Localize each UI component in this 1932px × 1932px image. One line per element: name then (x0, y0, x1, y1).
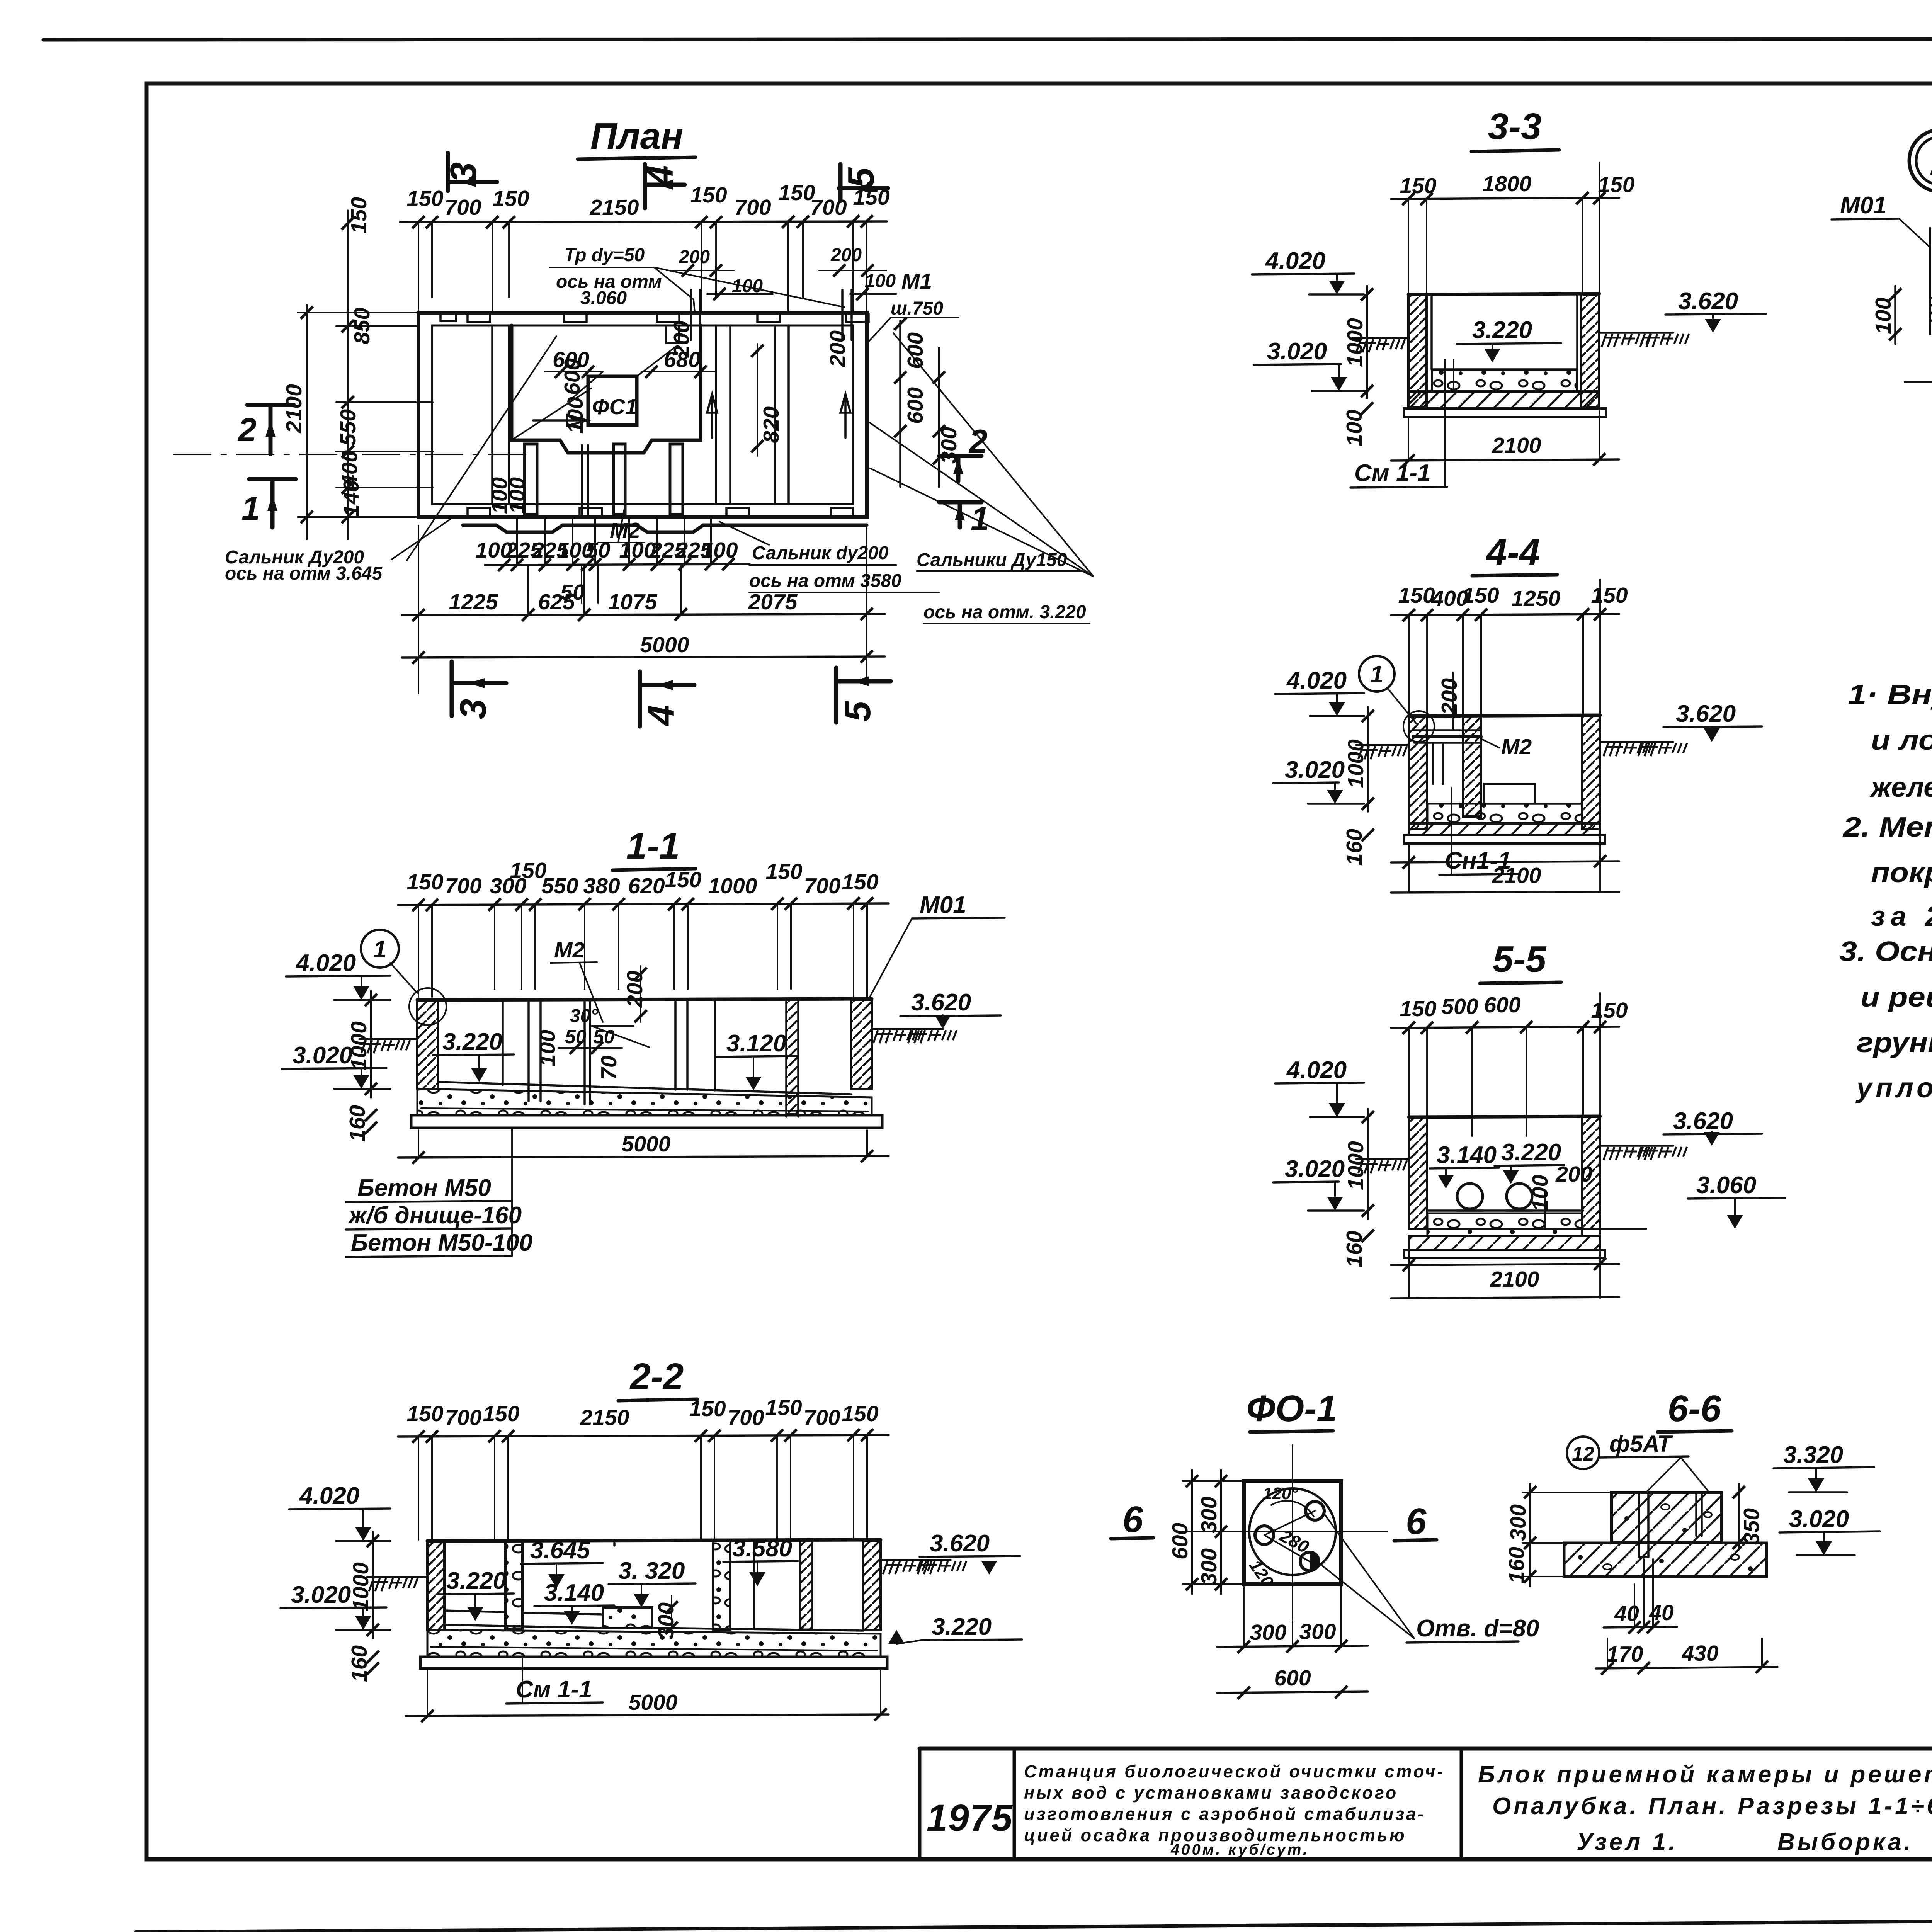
svg-text:1: 1 (241, 490, 260, 527)
section flag 1 left (241, 479, 296, 527)
svg-text:1250: 1250 (1512, 586, 1561, 611)
section flag 5 top (839, 164, 888, 201)
svg-text:грунт, уложенный слоями с: грунт, уложенный слоями с тщательным (1857, 1027, 1932, 1058)
section 1-1 interior formwork verticals (503, 1000, 798, 1117)
svg-text:380: 380 (583, 874, 620, 898)
svg-text:2. Металлические изделия и: 2. Металлические изделия и закладные дет… (1842, 812, 1932, 843)
centre chamber dimension 600 (545, 347, 603, 378)
section 1-1 left wall hatched (417, 1000, 438, 1089)
section 6-6 bottom dimension 170 430 (1596, 1638, 1777, 1675)
section flag 3 top (443, 153, 497, 191)
ФО-1 hole bottom (1300, 1552, 1319, 1571)
pipe 1 offset dimension 100 (707, 276, 773, 300)
section 2-2 top dimension line (398, 1395, 889, 1540)
diagonal leader into left chamber (407, 336, 556, 560)
section 2-2 inner wall 3 hatched (800, 1541, 812, 1629)
elevation mark 3.120 section 1-1 (717, 1030, 798, 1090)
svg-text:ФО-1: ФО-1 (1247, 1388, 1337, 1429)
section 2-2 interior floor line (444, 1611, 863, 1631)
section 6-6 bottom dimension 40 40 (1604, 1559, 1677, 1634)
svg-text:и лотка заштукатурить с п: и лотка заштукатурить с последующим (1871, 725, 1932, 756)
svg-text:140: 140 (339, 480, 364, 517)
section flag 4 bottom (640, 672, 694, 726)
vertical dimension 1000 section 5-5 (1344, 1109, 1374, 1219)
svg-text:700: 700 (445, 1405, 481, 1430)
svg-text:3.620: 3.620 (930, 1530, 990, 1557)
section 4-4 М2 bracket plate (1413, 730, 1481, 784)
svg-text:6-6: 6-6 (1668, 1388, 1721, 1429)
section 5-5 bottom dimension 2100 (1391, 993, 1619, 1298)
svg-text:50: 50 (586, 538, 611, 563)
svg-text:2100: 2100 (282, 384, 306, 434)
svg-text:ось на отм 3580: ось на отм 3580 (749, 571, 901, 591)
section 5-5 right wall hatched (1582, 1117, 1600, 1229)
svg-text:4.020: 4.020 (299, 1483, 359, 1509)
section flag 1 right (939, 500, 989, 537)
section 2-2 bottom dimension 5000 (406, 1670, 889, 1722)
svg-text:150: 150 (483, 1401, 519, 1426)
svg-text:3.220: 3.220 (446, 1568, 506, 1594)
elevation mark 4.020 section 2-2 (289, 1483, 390, 1541)
section 1-1 ground level right (872, 1029, 957, 1043)
section 1-1 ground level left (359, 1039, 417, 1053)
elevation mark 3.140 section 2-2 (534, 1580, 614, 1625)
svg-text:300: 300 (1299, 1619, 1336, 1644)
section 3-3 concrete fill with aggregate (1432, 370, 1577, 391)
plan axis dash line (174, 454, 526, 455)
node detail 1 circle (1909, 130, 1932, 192)
svg-text:625: 625 (538, 590, 575, 614)
ФО-1 centre lines (1202, 1445, 1387, 1619)
elevation mark 4.020 (1252, 248, 1364, 294)
svg-text:100: 100 (563, 397, 588, 434)
section 2-2 inner wall 2 concrete (713, 1541, 730, 1629)
ФО-1 bottom dimension 300 300 (1217, 1586, 1368, 1653)
elevation mark 3.580 section 2-2 (723, 1535, 798, 1586)
section 5-5 ground level right (1600, 1146, 1687, 1160)
label Salnik Du200 bottom left (225, 519, 450, 584)
rotated dimension 300 section 2-2 (654, 1596, 679, 1639)
section flag 5 bottom (836, 668, 891, 723)
svg-text:700: 700 (804, 874, 840, 898)
plan inner wall edge rectangle (432, 325, 853, 504)
plan inlet notch on top wall (666, 325, 679, 343)
svg-text:550: 550 (336, 409, 361, 446)
svg-text:150: 150 (406, 1401, 443, 1426)
section 4-4 ground level right (1600, 742, 1687, 756)
svg-text:См 1-1: См 1-1 (1354, 460, 1430, 486)
svg-text:160: 160 (1342, 829, 1367, 866)
elevation mark 3.020 section 2-2 (281, 1582, 390, 1630)
svg-text:100: 100 (505, 477, 530, 514)
section 6-6 right vertical dimension 350 (1733, 1484, 1764, 1549)
ФО-1 angle label 120 (1245, 1484, 1314, 1591)
svg-text:3.020: 3.020 (1285, 757, 1345, 783)
svg-text:2100: 2100 (1492, 433, 1541, 458)
svg-text:5: 5 (840, 167, 882, 188)
svg-text:План: План (590, 116, 683, 157)
svg-text:1000: 1000 (1344, 739, 1368, 788)
plan flow arrow centre (533, 415, 587, 426)
elevation mark 3.020 section 5-5 (1273, 1156, 1364, 1211)
svg-text:2150: 2150 (590, 195, 639, 220)
section 2-2 inner thin verticals (614, 1541, 754, 1628)
svg-text:150: 150 (492, 186, 529, 211)
plan top dimension extension lines (418, 221, 867, 313)
svg-text:12: 12 (1572, 1443, 1594, 1465)
svg-text:Сн1-1: Сн1-1 (1445, 847, 1511, 874)
svg-text:и решеток-дробилок служит м: и решеток-дробилок служит местный песчан… (1861, 982, 1932, 1013)
detail circle 1 (1359, 656, 1434, 742)
svg-text:150: 150 (1591, 583, 1628, 608)
section 4-4 floor step block (1481, 784, 1582, 804)
label M01 section 1-1 (869, 892, 1005, 999)
svg-text:150: 150 (842, 870, 878, 895)
elevation mark 3.220 section 1-1 (433, 1029, 514, 1082)
svg-text:3.220: 3.220 (1501, 1139, 1561, 1166)
ФО-1 radius line 280 (1264, 1511, 1315, 1561)
elevation mark 3.020 section 6-6 (1779, 1506, 1880, 1555)
vertical dimension 160 section 5-5 (1342, 1230, 1374, 1267)
svg-text:Сальник dу200: Сальник dу200 (752, 543, 889, 563)
svg-text:150: 150 (1462, 583, 1499, 608)
label M1 sh.750 with leader (866, 269, 959, 345)
ФО-1 hole left (1255, 1526, 1274, 1544)
svg-text:300: 300 (1506, 1504, 1531, 1541)
svg-text:700: 700 (727, 1405, 764, 1430)
plan bottom dimension row 1225 625 1075 2075 (402, 566, 885, 621)
section 4-4 bottom dimension 2100 (1391, 580, 1619, 893)
svg-text:Опалубка. План. Разрезы 1-1÷6: Опалубка. План. Разрезы 1-1÷6-6. ф01 (1492, 1793, 1932, 1820)
plan right rotated dimensions (894, 318, 961, 487)
section 4-4 inner wall hatched (1463, 716, 1481, 816)
dimension 200 section 5-5 (1528, 1162, 1592, 1229)
svg-text:300: 300 (1250, 1620, 1286, 1645)
elevation mark 3.620 right (1665, 288, 1766, 333)
section 3-3 left wall hatched (1408, 294, 1427, 408)
svg-text:М2: М2 (610, 518, 640, 543)
svg-text:Выборка.: Выборка. (1777, 1829, 1913, 1855)
svg-text:4: 4 (641, 705, 682, 726)
svg-text:1· Внутренние поверхности м: 1· Внутренние поверхности мокрых камер (1848, 679, 1932, 710)
rebar mark circle 12 (1567, 1437, 1599, 1469)
svg-text:1000: 1000 (349, 1562, 373, 1611)
vertical dimension 160 section 2-2 (347, 1645, 379, 1682)
svg-text:700: 700 (803, 1405, 840, 1430)
plan centre chamber outline with notched bottom (512, 325, 701, 453)
svg-text:ФС1: ФС1 (592, 395, 637, 419)
svg-text:5: 5 (837, 701, 878, 722)
section 5-5 title (1480, 939, 1561, 983)
section 4-4 top edge line (1409, 715, 1600, 716)
ФО-1 bottom dimension 600 (1217, 1666, 1368, 1699)
section 4-4 title (1472, 532, 1557, 576)
small dims 100 50 50 70 section 1-1 (535, 1026, 622, 1080)
svg-text:150: 150 (1591, 998, 1628, 1023)
svg-text:40: 40 (1614, 1601, 1639, 1626)
svg-text:1: 1 (373, 936, 386, 963)
plan interior wall between left chamber and centre (492, 325, 509, 504)
svg-text:430: 430 (1681, 1641, 1718, 1666)
svg-text:350: 350 (1739, 1508, 1764, 1545)
svg-text:150: 150 (1400, 173, 1436, 198)
rotated dimension 200 section 1-1 (622, 966, 647, 1022)
vertical dimension 160 section 1-1 (345, 1105, 377, 1142)
svg-text:30°: 30° (570, 1006, 598, 1026)
label Salniki Du150 bottom right (867, 333, 1094, 624)
svg-text:1-1: 1-1 (626, 825, 680, 867)
rotated dimensions 100 100 at slots (487, 477, 530, 514)
formwork part ФО-1 title (1247, 1388, 1337, 1432)
ФО-1 large circle (1249, 1488, 1336, 1575)
svg-text:100: 100 (535, 1030, 560, 1066)
svg-text:3-3: 3-3 (1488, 106, 1542, 147)
section 4-4 top dimension line (1391, 580, 1628, 715)
section 2-2 projecting base slab (420, 1657, 887, 1668)
section 1-1 top edge line (417, 999, 872, 1000)
diagonal leader centre chamber (514, 388, 591, 439)
vertical dimension 1000 section 1-1 (347, 991, 377, 1097)
svg-text:600: 600 (1168, 1523, 1192, 1560)
section 2-2 top edge line (427, 1540, 881, 1541)
svg-text:200: 200 (669, 321, 694, 358)
svg-text:150: 150 (406, 870, 443, 895)
ФО-1 left vertical dimensions 300 300 (1197, 1470, 1227, 1594)
svg-text:100: 100 (1528, 1175, 1553, 1211)
svg-text:3.220: 3.220 (1472, 317, 1532, 344)
svg-text:620: 620 (628, 874, 665, 898)
svg-text:100: 100 (1342, 410, 1367, 446)
diagonal leader to ФС1 corner (568, 348, 674, 402)
elevation mark 3.220 inside (1457, 317, 1561, 362)
node detail base line (1905, 382, 1932, 392)
section flag 4 top (639, 164, 685, 208)
svg-text:железнением, общим слоем - 25: железнением, общим слоем - 25мн. (1869, 772, 1932, 803)
svg-text:50: 50 (565, 1026, 587, 1048)
label Sm1-1 section 4-4 (1439, 788, 1519, 875)
plan view title (578, 116, 696, 159)
elevation mark 3.020 section 1-1 (282, 1042, 390, 1089)
svg-text:200: 200 (1555, 1162, 1592, 1187)
section 4-4 base slab hatched (1409, 823, 1600, 835)
plan interior wall between right chambers (775, 325, 789, 504)
rotated dimension 820 (751, 344, 784, 456)
elevation mark 4.020 section 5-5 (1275, 1057, 1364, 1117)
section 2-2 ground level left (367, 1577, 427, 1591)
section 2-2 right wall hatched (863, 1541, 881, 1630)
ФО-1 hole top right (1306, 1502, 1324, 1520)
page bottom edge line (136, 1917, 1932, 1932)
vertical dimension 1000 section 4-4 (1344, 707, 1374, 811)
svg-text:2-2: 2-2 (629, 1356, 684, 1397)
plan box ФС1 (588, 376, 637, 425)
svg-text:200: 200 (679, 247, 710, 267)
section 6-6 base slab hatched (1564, 1543, 1767, 1577)
section 5-5 base slab (1409, 1236, 1600, 1250)
svg-text:3.580: 3.580 (732, 1535, 792, 1562)
section 4-4 left wall hatched (1409, 716, 1427, 829)
label M2 section 1-1 (551, 938, 603, 1022)
section 3-3 top dimension line (1391, 162, 1635, 294)
svg-text:3.020: 3.020 (293, 1042, 352, 1069)
svg-text:4.020: 4.020 (1265, 248, 1325, 274)
plan left inner dimension chain (298, 197, 433, 539)
elevation mark 3.220 section 2-2 left (437, 1568, 514, 1621)
svg-text:2: 2 (237, 412, 257, 449)
section 3-3 top edge line (1408, 294, 1599, 294)
plan anchor plates on top wall (440, 313, 869, 322)
elevation mark 3.220 section 5-5 (1495, 1139, 1564, 1184)
plan anchor plates on bottom wall (468, 508, 853, 516)
svg-text:1000: 1000 (1343, 318, 1367, 367)
elevation mark 3.020 (1254, 338, 1368, 391)
elevation mark 3.320 section 6-6 (1774, 1442, 1874, 1492)
svg-text:2075: 2075 (748, 590, 798, 614)
svg-text:3.020: 3.020 (1285, 1156, 1345, 1182)
svg-text:3.620: 3.620 (1676, 701, 1736, 727)
svg-text:300: 300 (1197, 1548, 1221, 1585)
svg-text:Узел 1.: Узел 1. (1577, 1829, 1678, 1855)
plan lower curb outline with two dips (463, 525, 867, 532)
elevation mark 4.020 section 1-1 (286, 950, 390, 1000)
section 5-5 projecting base slab (1404, 1250, 1605, 1258)
svg-text:3: 3 (443, 162, 484, 183)
svg-text:150: 150 (347, 197, 371, 234)
svg-text:150: 150 (842, 1401, 878, 1426)
label pipe Tp dy=50 with leader (550, 245, 844, 313)
svg-text:4-4: 4-4 (1486, 532, 1540, 573)
svg-text:покрыть антикоррозийным биту: покрыть антикоррозийным битумным лаком (1871, 857, 1932, 888)
plan bottom dimension row small (475, 518, 750, 605)
svg-text:3.060: 3.060 (580, 288, 627, 308)
section 5-5 concrete fill (1427, 1213, 1582, 1236)
plan formwork slot panel 3 (670, 444, 683, 514)
svg-text:150: 150 (765, 859, 802, 884)
svg-text:200: 200 (830, 245, 862, 265)
title block project description (1024, 1762, 1445, 1858)
section 5-5 left wall hatched (1409, 1117, 1427, 1229)
svg-text:150: 150 (406, 186, 443, 211)
svg-text:5-5: 5-5 (1493, 939, 1547, 980)
node detail label M01 (1832, 192, 1930, 247)
svg-text:3. 320: 3. 320 (618, 1558, 685, 1584)
ФО-1 extension lines left (1182, 1481, 1244, 1584)
section 1-1 top dimension line (398, 858, 889, 997)
svg-text:ф5АТ: ф5АТ (1609, 1431, 1673, 1457)
svg-text:4.020: 4.020 (295, 950, 356, 976)
vertical dimension 1000 (1343, 286, 1373, 398)
svg-text:3.140: 3.140 (1437, 1142, 1497, 1168)
svg-text:600: 600 (1274, 1666, 1311, 1690)
svg-text:150: 150 (665, 867, 701, 892)
pipe 2 width dimension 200 (819, 245, 886, 277)
svg-text:3.220: 3.220 (442, 1029, 502, 1055)
svg-text:3.120: 3.120 (726, 1030, 786, 1057)
section 5-5 top dimension line (1391, 993, 1628, 1136)
section 3-3 base slab hatched (1408, 391, 1599, 408)
label Sm 1-1 (1350, 359, 1454, 488)
svg-text:3.645: 3.645 (530, 1537, 591, 1564)
ФО-1 square plate (1244, 1481, 1341, 1584)
svg-text:См 1-1: См 1-1 (516, 1676, 592, 1703)
svg-text:ж/б днище-160: ж/б днище-160 (348, 1202, 522, 1229)
svg-text:150: 150 (1400, 997, 1436, 1021)
svg-text:М01: М01 (920, 892, 966, 918)
label M2 with leader (598, 510, 645, 543)
svg-text:170: 170 (1606, 1642, 1643, 1667)
pipe 2 offset dimension 100 (850, 271, 896, 300)
plan left outer dimension line 2100 (282, 305, 313, 539)
title block top border (920, 1747, 1932, 1751)
svg-text:3.620: 3.620 (1673, 1108, 1733, 1134)
label Salnik dy200 bottom centre (719, 522, 939, 592)
svg-text:ных вод с установками заводско: ных вод с установками заводского (1024, 1783, 1398, 1803)
section 3-3 ground level right (1599, 333, 1689, 347)
section 6-6 title (1658, 1388, 1732, 1432)
elevation mark 3.645 section 2-2 (521, 1537, 603, 1588)
svg-text:300: 300 (937, 427, 961, 464)
svg-text:Бетон М50: Бетон М50 (357, 1175, 491, 1201)
svg-text:700: 700 (445, 874, 481, 898)
svg-text:5000: 5000 (640, 633, 689, 657)
ФО-1 left vertical dimension 600 (1168, 1470, 1198, 1594)
section 5-5 top edge line (1409, 1116, 1600, 1117)
page top edge line (43, 39, 1932, 40)
svg-text:600: 600 (1484, 993, 1520, 1017)
label M2 section 4-4 (1481, 735, 1532, 759)
elevation mark 3.620 section 1-1 (900, 989, 1001, 1029)
section 4-4 projecting base slab (1404, 835, 1605, 844)
svg-text:160: 160 (1504, 1547, 1529, 1583)
svg-text:ш.750: ш.750 (891, 298, 943, 319)
section 1-1 projecting base slab (411, 1115, 882, 1128)
svg-text:700: 700 (734, 195, 771, 220)
svg-text:4.020: 4.020 (1286, 1057, 1347, 1083)
svg-text:3.320: 3.320 (1783, 1442, 1843, 1468)
elevation mark 4.020 section 4-4 (1275, 667, 1364, 716)
section 3-3 inner channel walls (1432, 295, 1577, 369)
section 2-2 ground level right (881, 1560, 966, 1574)
svg-text:6: 6 (1406, 1501, 1427, 1542)
svg-text:3. Основанием под блок при: 3. Основанием под блок приемной камеры (1839, 936, 1932, 967)
section 1-1 bottom dimension 5000 (398, 1130, 889, 1164)
elevation mark 3.220 section 2-2 right (888, 1614, 1022, 1644)
plan top dimension texts (406, 180, 889, 220)
section 4-4 right wall hatched (1582, 716, 1600, 829)
svg-text:600: 600 (903, 332, 928, 369)
elevation mark 3.020 section 4-4 (1273, 757, 1364, 804)
svg-text:3.620: 3.620 (911, 989, 971, 1016)
section 6-6 pedestal hatched (1611, 1492, 1722, 1543)
svg-text:100: 100 (865, 271, 896, 291)
section 3-3 projecting base slab (1404, 408, 1606, 417)
svg-text:М2: М2 (554, 938, 585, 963)
section 6-6 dowel rebar (1639, 1492, 1702, 1557)
plan top dimension line (400, 221, 887, 222)
svg-text:1800: 1800 (1483, 172, 1532, 196)
svg-text:3: 3 (452, 699, 494, 719)
plan flow arrow vertical (707, 394, 717, 438)
svg-text:ось на отм. 3.220: ось на отм. 3.220 (923, 602, 1086, 622)
svg-text:3.020: 3.020 (1267, 338, 1327, 365)
section 2-2 inner wall 1 concrete (505, 1541, 522, 1629)
plan interior wall right of centre chamber (716, 325, 730, 504)
svg-text:160: 160 (347, 1645, 372, 1682)
svg-text:50: 50 (593, 1026, 615, 1048)
elevation mark 3.620 section 2-2 (920, 1530, 1020, 1575)
svg-text:160: 160 (1342, 1231, 1367, 1267)
node detail vertical plate (1930, 228, 1932, 334)
